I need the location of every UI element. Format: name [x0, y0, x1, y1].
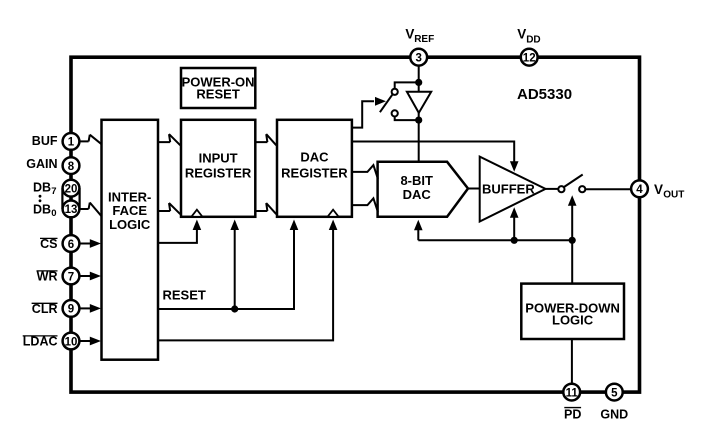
svg-text:1: 1	[68, 137, 75, 149]
junction dot at switch branch	[569, 237, 576, 244]
wire CS to interface logic	[79, 243, 91, 245]
block: INPUT REGISTER	[181, 120, 255, 217]
wire: power-down logic to PD pin	[571, 339, 573, 392]
pin 1 BUF	[63, 133, 80, 150]
pin 11 PD	[563, 384, 580, 401]
wire LDAC to interface logic	[79, 340, 91, 342]
svg-text:6: 6	[68, 239, 74, 251]
svg-text:10: 10	[65, 336, 78, 348]
svg-text:V: V	[405, 27, 414, 42]
pin 10 LDAC	[63, 333, 80, 350]
wire CLR to interface logic	[79, 307, 91, 309]
svg-text:GND: GND	[600, 407, 628, 421]
svg-text:BUFFER: BUFFER	[482, 181, 535, 196]
output switch right contact	[579, 186, 585, 192]
svg-text:RESET: RESET	[196, 86, 239, 101]
arrow into 8-bit DAC bottom	[414, 220, 423, 231]
arrow into input register clock	[193, 220, 202, 231]
junction dot at buffer branch	[511, 237, 518, 244]
svg-text:WR: WR	[37, 270, 58, 284]
wire: interface to input register lower bus	[158, 203, 180, 214]
svg-text:GAIN: GAIN	[26, 157, 57, 171]
output switch lever	[564, 175, 583, 188]
svg-text:REF: REF	[414, 34, 434, 45]
svg-text:9: 9	[68, 304, 74, 316]
arrow into buffer top	[510, 161, 519, 172]
reference buffer triangle (pointing down)	[407, 92, 431, 113]
svg-text:7: 7	[68, 271, 74, 283]
svg-text:BUF: BUF	[32, 134, 58, 148]
pin 3 VREF	[410, 49, 427, 66]
output switch left contact	[558, 186, 564, 192]
wire WR to interface logic	[79, 275, 91, 277]
wire: 8-bit DAC output to buffer	[468, 188, 480, 190]
svg-text:V: V	[654, 182, 663, 197]
wire: RESET line	[158, 230, 294, 310]
pin 12 VDD	[521, 49, 538, 66]
wire: DB bus to interface logic (bus slash)	[79, 203, 101, 217]
svg-text:REGISTER: REGISTER	[185, 165, 252, 180]
arrow into DAC register clock	[329, 220, 338, 231]
svg-text:DD: DD	[526, 34, 540, 45]
chip boundary AD5330	[71, 57, 640, 392]
svg-text:INPUT: INPUT	[199, 150, 238, 165]
switch: reference bypass, top contact	[395, 82, 419, 88]
block: INTERFACE LOGIC	[102, 120, 159, 360]
arrow to output switch	[568, 195, 577, 206]
pin 5 GND	[606, 384, 623, 401]
op-amp BUFFER (triangle)	[480, 157, 546, 222]
wire: buffer output to switch	[546, 188, 559, 190]
arrow at switch control	[375, 97, 386, 106]
arrow into DAC register (reset)	[290, 220, 299, 231]
svg-text:CLR: CLR	[32, 302, 58, 316]
wire: input register to DAC register upper bus	[255, 134, 276, 145]
wire: BUF pin to interface logic (bus slash)	[79, 135, 101, 145]
svg-text:DAC: DAC	[300, 150, 329, 165]
arrow into buffer bottom	[510, 207, 519, 218]
svg-text:V: V	[517, 27, 526, 42]
svg-text:0: 0	[51, 208, 56, 219]
wire: interface to input register upper bus	[158, 134, 180, 145]
block: POWER-DOWN LOGIC	[521, 284, 624, 339]
junction dot below ref buffer	[415, 117, 422, 124]
switch: reference bypass, bottom contact	[395, 117, 419, 121]
junction dot above ref buffer	[415, 79, 422, 86]
junction on RESET line	[231, 305, 238, 312]
svg-text:DB: DB	[33, 181, 51, 195]
svg-text:8-BIT: 8-BIT	[400, 173, 433, 188]
wire: LDAC line to DAC register clock	[158, 230, 333, 341]
DB pin capsule	[62, 188, 79, 209]
wire: DAC register to switch control	[352, 101, 374, 127]
pin 9 CLR	[63, 300, 80, 317]
svg-text:PD: PD	[564, 407, 581, 421]
svg-text:7: 7	[51, 186, 56, 197]
switch lever	[380, 95, 393, 113]
clock triangle input register	[191, 210, 202, 217]
svg-text:LOGIC: LOGIC	[552, 312, 594, 327]
pin 6 CS	[63, 235, 80, 252]
svg-text:FACE: FACE	[112, 203, 147, 218]
ellipsis dots between DB7 and DB0	[39, 195, 42, 198]
svg-text:RESET: RESET	[163, 287, 206, 302]
svg-text:AD5330: AD5330	[517, 86, 572, 103]
pin 7 WR	[63, 268, 80, 285]
svg-text:REGISTER: REGISTER	[281, 166, 348, 181]
svg-text:20: 20	[65, 183, 78, 195]
svg-text:5: 5	[611, 387, 618, 399]
pin 20 DB7	[63, 180, 80, 197]
svg-text:8: 8	[68, 161, 75, 173]
svg-text:13: 13	[65, 204, 78, 216]
pin 8 GAIN	[63, 157, 80, 174]
pin 13 DB0	[63, 201, 80, 218]
block: POWER-ON RESET	[181, 68, 255, 108]
wire: DAC register to 8-bit DAC upper bus	[352, 165, 378, 179]
svg-text:OUT: OUT	[663, 190, 684, 201]
wire: VREF pin down to 8-bit DAC	[418, 57, 420, 162]
power-down net wire	[418, 205, 572, 283]
clock triangle DAC register	[328, 210, 339, 217]
wire: input register to DAC register lower bus	[255, 203, 276, 214]
wire: interface clock to input register	[158, 230, 197, 243]
arrow into input register (reset)	[230, 220, 239, 231]
svg-text:12: 12	[523, 53, 536, 65]
svg-text:LDAC: LDAC	[23, 335, 58, 349]
block: 8-BIT DAC (pentagon)	[378, 162, 468, 217]
svg-text:11: 11	[566, 387, 579, 399]
wire: DAC register output to buffer top input	[352, 142, 514, 163]
svg-text:DAC: DAC	[403, 187, 432, 202]
pin 4 VOUT	[631, 180, 648, 197]
svg-text:LOGIC: LOGIC	[109, 217, 151, 232]
svg-text:3: 3	[415, 53, 421, 65]
wire: switch to VOUT pin	[585, 188, 639, 190]
svg-text:CS: CS	[40, 237, 57, 251]
block: DAC REGISTER	[277, 120, 352, 217]
svg-text:DB: DB	[33, 202, 51, 216]
svg-text:4: 4	[636, 184, 643, 196]
wire: DAC register to 8-bit DAC lower bus	[352, 198, 378, 212]
